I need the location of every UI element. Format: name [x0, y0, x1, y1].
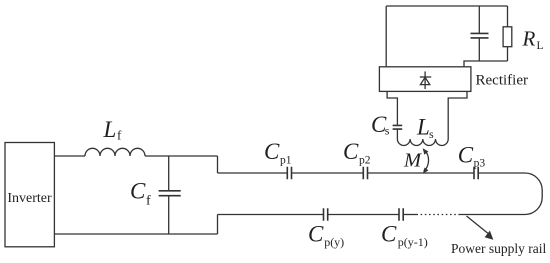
capacitor across RL : bottom stem — [478, 38, 480, 61]
capacitor Cp2 — [363, 167, 367, 180]
wire top rail segment 4 — [478, 172, 525, 174]
capacitor Cp(y) — [324, 208, 328, 221]
inductor Ls (secondary coil) — [397, 139, 448, 146]
capacitor across RL : plates — [471, 33, 489, 38]
inverter box — [5, 143, 54, 247]
svg-text:p3: p3 — [474, 157, 486, 169]
svg-text:C: C — [130, 179, 146, 204]
wire step up from bottom wire to bottom rail — [217, 215, 219, 235]
inductor Lf — [85, 148, 145, 156]
svg-text:f: f — [117, 127, 122, 142]
capacitor Cs — [393, 125, 403, 129]
svg-text:p(y): p(y) — [324, 235, 344, 249]
capacitor Cp3 — [474, 167, 478, 180]
svg-text:Inverter: Inverter — [7, 191, 52, 206]
wire secondary load loop: right down to resistor — [507, 6, 509, 27]
arrowhead bottom of M arrow — [423, 168, 429, 174]
wire bottom rail dotted segment — [417, 214, 460, 216]
rectifier box — [379, 67, 471, 92]
wire secondary load loop: left riser — [385, 6, 387, 67]
arrowhead top of M arrow — [423, 148, 429, 154]
capacitor across RL : top stem — [478, 6, 480, 33]
diode D inside rectifier: vertical lead — [424, 71, 426, 89]
svg-text:C: C — [343, 139, 359, 164]
capacitor Cp(y-1) — [399, 208, 403, 221]
wire Lf to step corner (passes Cf node) — [145, 155, 218, 157]
svg-text:p2: p2 — [359, 154, 371, 166]
wire secondary load loop: top — [386, 5, 507, 7]
wire U-turn of rail — [525, 173, 542, 215]
wire rectifier left stub — [387, 91, 397, 124]
svg-text:Rectifier: Rectifier — [476, 73, 528, 89]
wire top rail segment 2 — [292, 172, 364, 174]
capacitor Cp1 — [287, 167, 291, 180]
svg-text:p(y-1): p(y-1) — [398, 235, 428, 249]
svg-text:R: R — [522, 27, 536, 51]
svg-text:C: C — [381, 221, 397, 246]
svg-text:L: L — [416, 115, 430, 140]
wire bottom from inverter — [54, 233, 217, 235]
wire below resistor — [507, 47, 509, 61]
wire bottom rail right solid segment — [460, 214, 525, 216]
resistor RL — [503, 27, 512, 47]
svg-text:M: M — [403, 150, 423, 172]
svg-text:f: f — [146, 194, 151, 209]
capacitor Cf — [168, 156, 170, 191]
mutual coupling arrow M (curved, two heads) — [424, 151, 429, 171]
diode D cathode bar — [420, 76, 431, 78]
wire top rail segment 1 — [218, 172, 288, 174]
wire top from inverter to Lf — [54, 155, 85, 157]
wire load loop bottom — [464, 61, 508, 67]
wire Cs to Ls — [396, 129, 398, 139]
svg-text:C: C — [308, 221, 324, 246]
wire top rail segment 3 — [368, 172, 475, 174]
wire bottom rail segment 3 — [403, 214, 417, 216]
svg-text:C: C — [264, 139, 280, 164]
svg-text:s: s — [429, 127, 434, 141]
leader arrow to Power supply rail — [467, 216, 489, 234]
svg-text:Power supply rail: Power supply rail — [451, 241, 546, 256]
diode D triangle — [420, 77, 429, 84]
wire rectifier right stub — [448, 91, 467, 139]
svg-text:p1: p1 — [280, 154, 292, 166]
svg-text:C: C — [458, 142, 474, 167]
wire bottom rail segment 1 — [218, 214, 324, 216]
svg-text:L: L — [537, 40, 544, 52]
wire step down to top rail — [217, 156, 219, 173]
wire bottom rail segment 2 — [328, 214, 399, 216]
svg-text:s: s — [385, 124, 390, 138]
svg-text:L: L — [103, 117, 117, 142]
